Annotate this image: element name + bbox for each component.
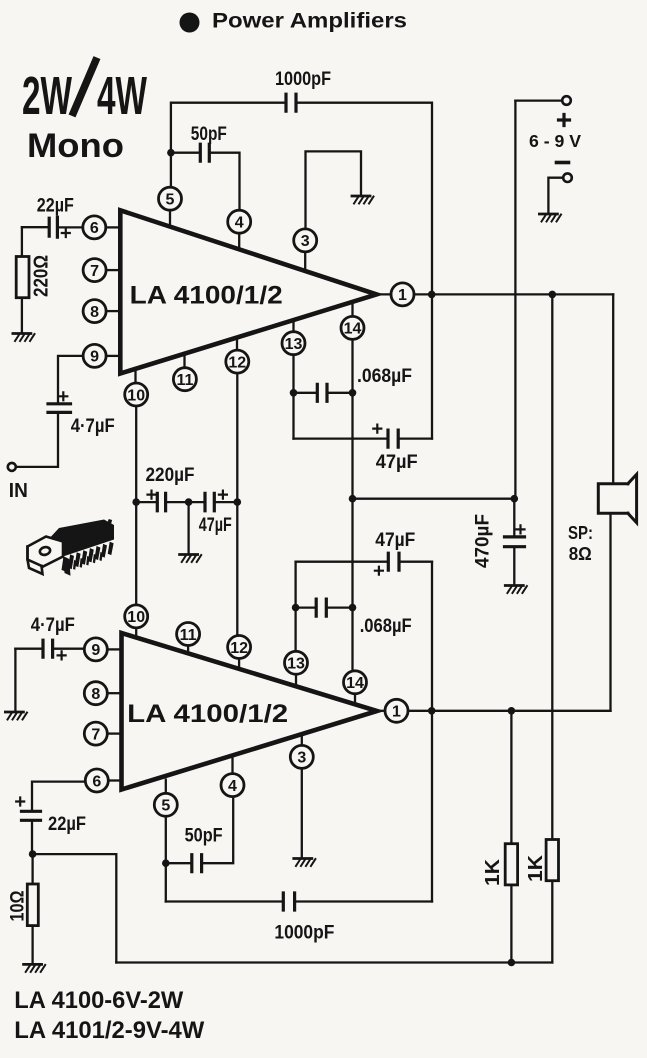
IC package drawing [46,519,114,576]
svg-text:220µF: 220µF [146,465,195,486]
capacitor 1000pF top plates [286,94,296,111]
svg-text:.068µF: .068µF [357,366,412,387]
wire 10ohm to ground [31,926,33,963]
node pin14/Vplus wire [349,495,357,503]
pin 13 circle (top amp) [282,332,305,355]
wire 50pF bottom left [166,862,192,864]
pin 7 circle [83,259,106,282]
capacitor 22uF bottom plates [22,811,41,820]
wire .068uF row left [294,392,318,394]
pin 3 stub [304,252,306,271]
pin 9 circle [83,344,106,367]
plus sign supply [559,115,570,126]
wire 220uF row [136,501,157,503]
wire pin5 down [165,816,167,901]
pin 8 circle [83,300,106,323]
pin 9 stub bottom [107,648,119,650]
terminal + [562,96,571,105]
svg-text:2W: 2W [22,66,72,126]
svg-text:4·7µF: 4·7µF [31,615,75,636]
svg-text:5: 5 [161,798,170,815]
wire 22uF left [22,226,49,228]
pin 14 stub bottom [354,694,356,705]
wire feedback vertical bottom [431,562,433,902]
svg-text:4W: 4W [97,66,147,126]
svg-text:7: 7 [91,726,100,743]
wire junction to rail [33,854,117,962]
svg-text:13: 13 [287,656,305,673]
capacitor 4.7uF bottom plates [43,640,53,657]
svg-text:10Ω: 10Ω [8,891,29,922]
wire 50pF right to pin4 [209,153,239,211]
wire supply minus [548,178,563,213]
minus sign supply [557,161,569,165]
svg-text:11: 11 [180,627,197,644]
header bullet [180,13,200,33]
svg-text:12: 12 [228,354,246,371]
wire junction to resistor 10ohm [31,854,33,884]
svg-text:8: 8 [91,686,100,703]
capacitor 4.7uF top plates [48,404,71,413]
svg-text:12: 12 [230,640,248,657]
pin 4 stub bottom [231,757,233,774]
node pin13/.068 [290,389,298,397]
node V+ junction [511,495,519,503]
capacitor .068uF top plates [317,384,327,401]
svg-text:1000pF: 1000pF [274,923,334,944]
node pin14/.068 [349,389,357,397]
wire .068uF row right [327,392,353,394]
ground 4.7uF bottom [5,712,27,720]
wire 50pF left [171,152,200,154]
resistor R 1K no1 [505,844,517,885]
svg-text:LA 4100/1/2: LA 4100/1/2 [127,700,288,728]
svg-text:.068µF: .068µF [360,616,412,637]
wire pin14 long vertical [351,339,353,671]
pin 1 wire apex bottom [377,710,385,712]
pin 10 circle (top amp) [125,383,148,406]
pin 6 circle [83,216,106,239]
node pin1/1K [549,291,557,299]
wire .068uF bottom row left [296,606,317,608]
wire pin3 bottom to ground [301,768,303,857]
ground pin3 bottom [294,859,316,867]
svg-text:11: 11 [176,372,193,389]
wire pin10 column [135,406,137,605]
wire 47uF mid to pin12 column [214,501,237,503]
capacitor 22uF plates [49,217,57,237]
op-amp U1 triangle [120,210,376,373]
wire bottom rail [116,961,552,963]
node pin14/.068 bottom [349,604,357,612]
pin 12 stub bottom [238,659,240,669]
pin 4 circle [228,210,251,233]
node pin1/feedback [428,291,436,299]
pin 10 stub bottom [135,628,137,638]
pin 14 circle (bottom amp) [344,671,367,694]
wire speaker bottom [609,513,611,711]
svg-text:22µF: 22µF [37,196,74,217]
pin 9 stub [106,355,118,357]
wire 1000pF row right [296,103,432,439]
svg-text:9: 9 [91,642,100,659]
svg-text:Power Amplifiers: Power Amplifiers [212,9,407,33]
wire 47uF to feedback vertical [398,437,432,439]
svg-text:1K: 1K [482,858,504,886]
pin 4 stub [238,233,240,249]
capacitor 470uF plates [505,537,525,547]
ground 10ohm [24,964,46,972]
wire pin3 to ground [306,151,362,229]
wire 22uF bottom down [31,820,33,854]
IC package tab [28,537,64,575]
pin 13 circle (bottom amp) [285,651,308,674]
pin 11 circle (bottom amp) [177,623,200,646]
capacitor 50pF bottom plates [192,855,202,872]
pin 12 stub [236,338,238,351]
wire pin13 vertical [292,355,294,439]
ground mid [180,555,202,563]
svg-text:4: 4 [235,215,244,232]
wire 4.7uF to IN [16,412,58,467]
capacitor 1000pF bottom plates [283,893,294,910]
ground 470uF [505,586,527,594]
pin 8 stub bottom [107,692,119,694]
svg-text:4: 4 [228,778,237,795]
svg-text:47µF: 47µF [376,452,418,473]
pin 7 circle (bottom amp) [84,722,107,745]
wire 1K no2 bottom [551,881,553,963]
svg-text:1000pF: 1000pF [275,69,331,90]
wire 47uF feedback row top amp [294,437,389,439]
svg-text:47µF: 47µF [199,515,232,536]
pin 1 circle (bottom amp) [385,699,408,722]
svg-text:220Ω: 220Ω [31,255,53,297]
svg-text:SP:: SP: [568,522,593,543]
plus sign 22uF bottom [16,798,24,806]
wire 47uF bottom row [296,561,389,563]
pin 1 wire from apex [377,293,392,295]
wire 470uF to ground [513,547,515,584]
node pin12/row [234,498,242,506]
capacitor 47uF bottom plates [388,553,399,570]
svg-text:Mono: Mono [27,127,124,165]
svg-text:4·7µF: 4·7µF [71,416,115,437]
wire pin9 to cap 4.7uF [58,356,83,404]
svg-text:1: 1 [398,287,407,304]
resistor R 220ohm [16,257,29,298]
svg-text:13: 13 [285,336,303,353]
node junction pin5/50pF [167,149,175,157]
speaker SP [598,474,636,522]
wire down to resistor [21,227,23,256]
wire mid to ground [187,502,189,553]
plus sign 22uF [62,229,70,237]
wire 47uF bottom right [399,561,432,563]
svg-text:5: 5 [166,192,175,209]
node pin1-bottom/1K [508,707,516,715]
svg-text:LA 4101/2-9V-4W: LA 4101/2-9V-4W [14,1017,204,1044]
node pin13/.068 bottom [292,604,300,612]
svg-text:8Ω: 8Ω [569,543,592,564]
wire pin12 column [236,373,238,635]
svg-text:9: 9 [90,349,99,366]
pin 13 stub [292,320,294,332]
node mid 220uF/47uF [185,498,193,506]
pin 12 circle (top amp) [226,350,249,373]
ground 220ohm [13,334,35,342]
wire 1000pF row left [171,103,286,188]
svg-text:7: 7 [90,263,99,280]
pin 12 circle (bottom amp) [228,636,251,659]
plus sign 47uF bottom [375,567,383,575]
node pin10/220uF [132,498,140,506]
pin 10 circle (bottom amp) [125,605,148,628]
pin 6 stub bottom [108,779,119,781]
wire pin14 to V+ [353,498,515,500]
svg-text:6: 6 [90,220,99,237]
wire 4.7uF bottom right to pin9 [53,648,85,650]
svg-text:470µF: 470µF [473,514,494,568]
node pin1-bottom/feedback [428,707,436,715]
ground supply [539,214,561,222]
plus sign 47uF top [373,425,381,433]
svg-text:10: 10 [127,609,145,626]
plus sign 470uF [517,525,525,533]
svg-text:47µF: 47µF [375,530,415,551]
wire supply plus to rail [515,99,562,101]
svg-text:50pF: 50pF [185,826,223,847]
capacitor 470uF leg [513,499,515,537]
svg-text:1: 1 [392,704,401,721]
pin 4 circle (bottom amp) [221,774,244,797]
resistor R 10ohm [27,884,38,926]
svg-text:LA 4100-6V-2W: LA 4100-6V-2W [14,987,183,1014]
wire 1K no1 bottom [510,885,512,963]
pin 13 stub bottom [295,674,297,686]
pin 3 circle (bottom amp) [290,745,313,768]
terminal - [563,173,572,182]
svg-text:1K: 1K [525,854,547,882]
pin 7 stub bottom [107,732,119,734]
pin 5 stub bottom [165,780,167,794]
pin 14 stub [351,302,353,316]
op-amp U2 triangle [122,633,378,790]
plus sign 4.7uF top [59,392,67,400]
node pin5/50pF bottom [162,859,170,867]
pin 7 stub [106,269,118,271]
plus sign 4.7uF bottom [58,651,66,659]
ground pin3 top [352,196,374,204]
wire 1K no1 top [510,711,512,844]
pin 5 circle (bottom amp) [154,793,177,816]
svg-text:6: 6 [92,773,101,790]
wire 4.7uF bottom left [15,648,43,650]
plus sign 47uF mid [219,491,227,499]
svg-text:6 - 9 V: 6 - 9 V [529,131,581,151]
node 22uF/10ohm junction [29,850,37,858]
wire 22uF right to pin6 [57,226,82,228]
wire .068uF bottom row right [326,606,352,608]
pin 8 circle (bottom amp) [84,682,107,705]
pin 11 circle (top amp) [173,368,196,391]
svg-text:22µF: 22µF [48,814,86,835]
svg-text:8: 8 [90,304,99,321]
resistor R 1K no2 [546,840,558,881]
svg-text:IN: IN [9,480,28,502]
wire 50pF bottom right to pin4 [202,797,234,864]
node rail/1K no1 [508,959,516,967]
svg-text:14: 14 [346,675,364,692]
capacitor 220uF plates [157,493,165,510]
svg-text:10: 10 [127,387,145,404]
capacitor 50pF plates [200,144,209,161]
wire pin6 to 22uF bottom [32,782,85,812]
pin 14 circle (top amp) [341,316,364,339]
pin 10 stub [134,369,136,383]
capacitor 47uF mid plates [205,493,214,510]
wire 4.7uF bottom to ground [14,649,16,711]
capacitor .068uF bottom plates [316,599,326,616]
wire pin1 output row [414,293,613,295]
wire V+ rail vertical [514,101,516,499]
wire mid junction [166,501,205,503]
svg-text:LA 4100/1/2: LA 4100/1/2 [130,282,283,310]
svg-text:3: 3 [297,750,306,767]
wire 1K no2 top [551,294,553,839]
wire 1000pF bottom right [295,900,432,902]
wire resistor to ground [21,298,23,332]
pin 5 circle [159,187,182,210]
pin 3 stub bottom [301,734,303,746]
pin 6 circle (bottom amp) [85,769,108,792]
plus sign 220uF [148,491,156,499]
terminal IN [8,463,16,471]
wire 1000pF bottom row [166,900,283,902]
pin 8 stub [106,310,118,312]
svg-text:3: 3 [301,233,310,250]
pin 11 stub bottom [187,646,189,654]
svg-text:50pF: 50pF [191,124,227,145]
wire pin13 bottom vertical [294,562,296,652]
wire speaker top [612,294,614,483]
pin 11 stub [183,354,185,368]
wire pin1 bottom row [408,710,611,712]
pin 6 stub [106,226,118,228]
capacitor 47uF top plates [388,430,398,447]
pin 3 circle [294,229,317,252]
pin 9 circle (bottom amp) [84,638,107,661]
pin 5 stub [169,210,171,226]
svg-text:14: 14 [344,321,362,338]
pin 1 circle (top amp) [391,283,414,306]
